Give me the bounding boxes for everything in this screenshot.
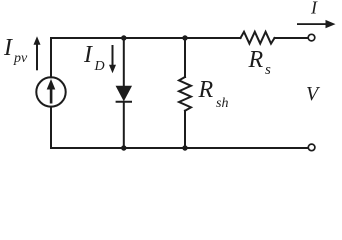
output current I arrow [297, 20, 336, 28]
junction node top-shunt [182, 35, 187, 40]
resistor Rs zigzag [241, 32, 275, 44]
svg-text:s: s [265, 62, 271, 78]
current source Ipv circle [36, 77, 65, 106]
wire shunt branch upper [184, 38, 186, 77]
svg-text:I: I [3, 35, 13, 61]
wire bottom rail [51, 147, 308, 149]
wire left branch lower [50, 107, 52, 148]
wire top rail right of Rs [275, 37, 309, 39]
wire diode branch upper [123, 38, 125, 87]
junction node bottom-diode [121, 145, 126, 150]
resistor Rsh zigzag [179, 77, 191, 111]
svg-text:pv: pv [13, 51, 28, 66]
terminal negative (bottom right) [308, 144, 315, 151]
current source arrow (inside circle) [47, 79, 56, 104]
Ipv annotation arrow (up) [34, 36, 41, 70]
diode D cathode bar [116, 101, 132, 103]
svg-text:D: D [94, 59, 105, 74]
wire diode branch lower [123, 102, 125, 148]
wire shunt branch lower [184, 111, 186, 148]
svg-text:I: I [310, 0, 318, 18]
diode D triangle [116, 86, 131, 100]
ID annotation arrow (down) [109, 45, 116, 73]
junction node bottom-shunt [182, 145, 187, 150]
svg-text:R: R [198, 77, 214, 103]
terminal positive (top right) [308, 34, 315, 41]
junction node top-diode [121, 35, 126, 40]
wire left branch upper [50, 38, 52, 77]
svg-text:I: I [83, 42, 93, 68]
svg-text:V: V [306, 83, 321, 105]
svg-text:R: R [248, 47, 264, 73]
wire top rail [51, 37, 241, 39]
svg-text:sh: sh [216, 96, 228, 111]
